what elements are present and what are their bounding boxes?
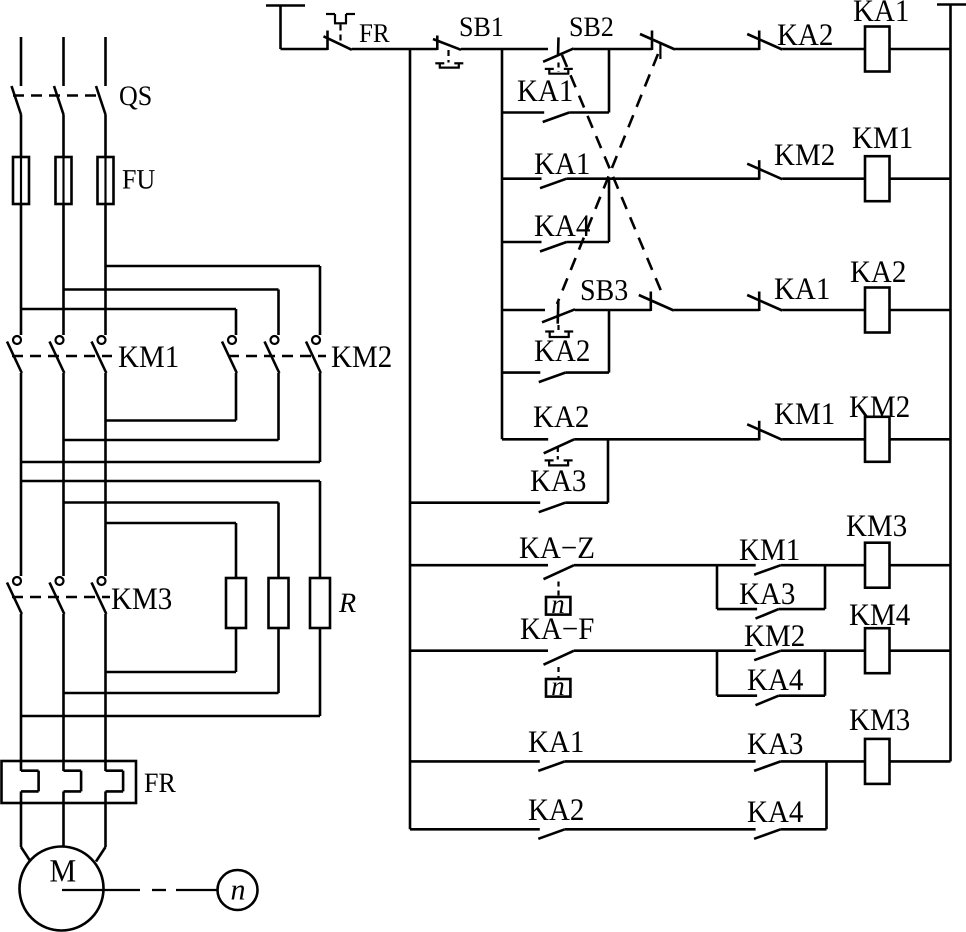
label KA-Z [520, 537, 540, 558]
wire: SB2-NC to KA1 NC [674, 309, 759, 312]
KA4 parallel box rung8 left leg [716, 651, 719, 696]
wire: L1 FR to motor [20, 791, 23, 847]
wire: L3 QS to FU [104, 115, 107, 158]
wire: KA1 branch left [502, 111, 544, 114]
wire: rung9 left [410, 760, 540, 763]
label KM2 main [332, 346, 352, 367]
label SB3 [582, 280, 594, 300]
wire: KA4 branch left [502, 241, 542, 244]
wire: rung2 left [502, 177, 542, 180]
fuse FU 2 [56, 157, 72, 204]
wire: KM3 coil to right rail [890, 564, 951, 567]
stop button SB1 NC contact [436, 36, 439, 51]
wire: rung5 middle [574, 438, 759, 441]
left rail 1 [409, 49, 412, 829]
wire: L1 QS to FU [20, 115, 23, 158]
fuse FU 1 [13, 157, 29, 204]
wire: terminal to FR contact [281, 48, 328, 51]
start button SB2 NO contact [557, 37, 560, 56]
contactor KM1 main pole 2 [56, 336, 64, 344]
KA2-KA3 dashed link [557, 447, 559, 460]
wire: rung10 middle [565, 828, 756, 831]
label KA4 branch [535, 215, 555, 236]
left rail 2 [501, 49, 504, 439]
KA3 parallel box right leg [824, 565, 827, 609]
label KM3 main [112, 588, 132, 609]
label KM2 coil [850, 396, 870, 417]
wire: rung7 middle [574, 564, 756, 567]
wire: rung2 middle [567, 177, 760, 180]
wire: L2 below KM1 [62, 373, 65, 576]
SB3 button cap [545, 330, 554, 332]
wire: KM2 pole1 output to L3 [235, 373, 238, 421]
FR trip dashed link [339, 25, 341, 45]
shaft coupling dash-dot line [62, 889, 140, 891]
label KM4 coil [850, 604, 870, 625]
label KA1 rung4 [775, 278, 795, 299]
interlock NC contact of SB2 on rung 4 [649, 292, 652, 312]
wire: L2 FU to KM1 [62, 204, 65, 335]
KA3 parallel box rung7 left leg [716, 565, 719, 609]
wire: L1 KM3 to FR [20, 614, 23, 771]
relay KA4 NO contact rung10 [754, 829, 781, 839]
wire: rung8 left [410, 649, 548, 652]
wire: KA3 box bottom right [779, 608, 825, 611]
wire: rung5 left [502, 438, 548, 441]
wire: phase line L3 top [104, 37, 107, 86]
wire: KM4 coil to right rail [890, 649, 951, 652]
wire: L1 below KM1 [20, 373, 23, 576]
wire: rung9 middle [565, 760, 756, 763]
label KM1 rung5 [775, 403, 795, 424]
wire: KA1 coil to right rail [890, 48, 951, 51]
relay coil KA1 [865, 27, 890, 72]
wire: phase line L2 top [62, 37, 65, 86]
right rail with terminal bar [937, 3, 966, 6]
label FR control [360, 24, 372, 42]
start button SB3 NO contact [556, 302, 559, 324]
wire: KM1 coil to right rail [890, 177, 951, 180]
wire: rung4 to KA2 coil [782, 309, 865, 312]
wire: L1 tap to resistor 3 [21, 480, 320, 483]
contactor KM1 NC interlock rung5 [758, 421, 761, 441]
wire: KM3 coil rung9 to right rail [890, 760, 951, 763]
wire: rung5 to KM2 coil [782, 438, 865, 441]
SB1 button cap [435, 62, 444, 64]
label KA4 box [748, 669, 768, 690]
contactor KM1 main pole 3 [98, 336, 106, 344]
KA2 link cap symbol [545, 459, 554, 461]
label KA-F [521, 618, 541, 639]
wire: KA4 branch right [567, 241, 610, 244]
relay KA3 NO contact branch [539, 503, 566, 513]
contactor KM2 main pole 3 [312, 336, 320, 344]
label KA1 coil [854, 0, 874, 21]
contactor coil KM2 [865, 417, 890, 462]
KA-Z to n-box dashed link [557, 582, 559, 597]
resistor R element 1 [226, 578, 246, 628]
relay KA1 NO contact rung9 [538, 761, 565, 771]
wire: KA3 branch right [565, 501, 608, 504]
wire: KA2 coil to right rail [890, 309, 951, 312]
label KA1 rung2 [535, 153, 555, 174]
relay KA2 NO contact rung5 [544, 439, 575, 453]
wire: KA2 branch right [565, 371, 609, 374]
wire: KA2 NC to KA1 coil [782, 48, 865, 51]
relay KA1 NO contact branch [543, 113, 570, 123]
label KA3 rung9 [748, 733, 768, 754]
label KA2 rung10 [529, 799, 549, 820]
wire: rung2 to KM1 coil [782, 177, 865, 180]
relay KA3 NO contact rung9 [754, 761, 781, 771]
relay KA1 NO contact rung2 [540, 179, 567, 189]
contactor KM1 NO contact rung7 [754, 565, 781, 575]
label KA1 rung9 [529, 731, 549, 752]
label KA2 rung5 [534, 406, 554, 427]
relay coil KA2 [865, 288, 890, 333]
label FR power side [145, 774, 158, 792]
wire: KA2 branch left [502, 371, 540, 374]
wire: SB3 to SB2-NC [575, 309, 651, 312]
wire: rung7 left [410, 564, 548, 567]
label R [339, 594, 356, 612]
label QS [120, 86, 137, 109]
label KA2 coil [851, 261, 871, 282]
wire: KA1 branch right [569, 111, 609, 114]
wire: rung8 middle [574, 649, 756, 652]
label KM3 coil rung7 [847, 515, 867, 536]
KA-F to n-box dashed link [557, 667, 559, 678]
relay KA2 NO contact rung10 [538, 829, 565, 839]
contactor coil KM1 [865, 156, 890, 201]
wire: rung10 left [410, 828, 540, 831]
contactor KM1 main pole 1 [13, 336, 21, 344]
contactor coil KM3 rung7 [865, 543, 890, 588]
SB1 actuator dashed link [447, 50, 449, 63]
wire: SB2 to SB3-NC [574, 48, 652, 51]
mechanical link SB2 dashed diagonal [562, 55, 664, 298]
FR heater element 1 [21, 769, 39, 772]
relay KA4 NO contact in box [756, 696, 779, 706]
wire: L1 FU to KM1 [20, 204, 23, 335]
wire: L3 tap to resistor 1 [106, 522, 237, 525]
contactor KM2 NO contact rung8 [754, 651, 781, 661]
wire: KA4 box bottom right [779, 694, 825, 697]
fuse FU 3 [98, 157, 114, 204]
SB3 actuator dashed link [557, 325, 559, 331]
speed relay KA-Z NO contact [544, 565, 575, 579]
wire: rung4 left [502, 309, 545, 312]
FR heater element 2 [64, 769, 82, 772]
label KA3 box [740, 583, 760, 604]
wire: L2 tap to KM2 pole 2 [64, 288, 279, 291]
disconnect switch QS pole 3 [96, 86, 106, 115]
label KM1 coil [853, 127, 873, 148]
speed relay n box forward [546, 597, 570, 615]
label KA2 branch [535, 340, 555, 361]
tachogenerator n circle [218, 870, 258, 910]
SB3 NC linkage stub [659, 44, 661, 59]
contactor coil KM3 rung9 [865, 739, 890, 784]
wire: L3 FU to KM1 [104, 204, 107, 335]
wire: KM2 coil to right rail [890, 438, 951, 441]
contactor KM3 pole 3 [98, 577, 106, 585]
contactor KM2 main pole 2 [271, 336, 279, 344]
speed relay KA-F NO contact [544, 651, 575, 665]
contactor KM2 main pole 1 [228, 336, 236, 344]
disconnect switch QS pole 2 [54, 86, 64, 115]
speed relay n box reverse [546, 679, 570, 697]
KM3 linkage dashed line [12, 596, 110, 599]
control supply terminal left [266, 4, 305, 7]
label KM1 main [119, 346, 139, 367]
wire: L1 tap to KM2 pole 1 [21, 308, 236, 311]
wire: KA3 branch left [410, 501, 540, 504]
mechanical link SB3 dashed diagonal [557, 54, 658, 304]
wire: L2 FR to motor [62, 791, 65, 846]
label FU [123, 170, 136, 188]
label KM2 rung2 [775, 144, 795, 165]
wire: SB3-NC to KA2 NC [675, 48, 759, 51]
wire: SB1 to SB2 [461, 48, 548, 51]
wire: phase line L1 top [20, 37, 23, 86]
disconnect switch QS pole 1 [12, 86, 22, 115]
label KA1 branch [518, 80, 538, 101]
wire: resistor 1 bottom to L3 [235, 628, 238, 672]
wire: resistor 3 bottom to L1 [319, 628, 322, 716]
wire: KM2 pole3 output to L1 [319, 373, 322, 462]
wire: rung8 right [781, 649, 865, 652]
wire: L2 QS to FU [62, 115, 65, 158]
relay KA1 NC contact rung4 [758, 292, 761, 312]
wire: L3 KM3 to FR [104, 614, 107, 771]
wire: rung9 right [781, 760, 865, 763]
wire: L2 tap to resistor 2 [64, 501, 279, 504]
wire: KA4 box bottom left [717, 694, 757, 697]
contactor KM3 pole 1 [13, 577, 21, 585]
wire: FR to SB1 [352, 48, 438, 51]
wire: rung7 right [781, 564, 865, 567]
label SB2 [571, 17, 582, 36]
wire: L3 tap to KM2 pole 3 [106, 265, 321, 268]
relay KA2 NC contact rung 1 [758, 31, 761, 51]
label SB1 [461, 17, 472, 36]
thermal relay FR NC contact [326, 31, 329, 51]
motor M [20, 847, 104, 931]
wire: rung10 right joining rung9 [781, 828, 827, 831]
interlock NC contact of SB3 on rung 1 [651, 31, 654, 51]
relay KA3 NO contact in box [756, 609, 779, 619]
SB2 actuator dashed link [557, 63, 559, 73]
relay KA2 NO contact branch [539, 373, 566, 383]
wire: L3 FR to motor [104, 791, 107, 847]
FR heater element 3 [106, 769, 124, 772]
wire: KA3 box bottom left [717, 608, 757, 611]
resistor R element 2 [269, 578, 289, 628]
junction rung5 to KA3 branch [607, 439, 610, 502]
SB2 button cap [545, 68, 554, 70]
label KM1 rung7 [740, 539, 760, 560]
wire: L3 below KM1 [104, 373, 107, 576]
FR trip element symbol [326, 13, 335, 15]
KM2 linkage dashed line [228, 355, 326, 358]
label KM3 coil rung9 [850, 709, 870, 730]
contactor coil KM4 [865, 628, 890, 673]
relay KA4 NO contact branch [540, 242, 567, 252]
wire: L2 KM3 to FR [62, 614, 65, 771]
label KM2 rung8 [745, 625, 765, 646]
label KA3 branch [531, 470, 551, 491]
wire: resistor 2 bottom to L2 [277, 628, 280, 693]
contactor KM2 NC interlock rung2 [758, 160, 761, 180]
thermal relay FR heater box [2, 761, 137, 803]
resistor R element 3 [310, 578, 330, 628]
contactor KM3 pole 2 [56, 577, 64, 585]
QS linkage dashed line [13, 94, 103, 97]
label KA2 rung1 [778, 24, 798, 45]
label KA4 rung10 [748, 801, 768, 822]
KA4 parallel box right leg [824, 651, 827, 696]
KM1 linkage dashed line [12, 355, 112, 358]
wire: KM2 pole2 output to L2 [277, 373, 280, 440]
